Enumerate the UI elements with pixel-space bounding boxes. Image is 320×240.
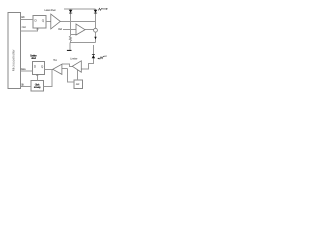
- wire AGC out to TIA control tap: [68, 69, 75, 82]
- wire monitor node to op-amp input: [71, 34, 76, 36]
- wire clock recovery input tap: [43, 69, 52, 86]
- svg-text:CLK: CLK: [22, 26, 27, 29]
- wire monitor photodiode branch: [70, 9, 72, 35]
- wire TIA gain control input: [62, 68, 68, 70]
- op-amp U2 triangle: [76, 24, 85, 35]
- decision circuit clock input caret: [36, 74, 38, 75]
- svg-text:circuit: circuit: [31, 57, 36, 60]
- monitor photodiode D2 symbol: [69, 10, 73, 13]
- svg-text:AGC: AGC: [76, 83, 80, 86]
- light output wavy arrow: [98, 8, 106, 10]
- svg-text:Enb: Enb: [21, 16, 25, 19]
- wire receive photodiode down and left to limiter: [81, 45, 93, 69]
- wire bottom rail: [70, 42, 95, 44]
- flip-flop FF1 box: [33, 16, 46, 29]
- wire op-amp out to transistor base: [85, 29, 94, 31]
- svg-text:Laser driver: Laser driver: [44, 9, 55, 12]
- svg-text:TIA: TIA: [53, 59, 57, 62]
- wire TIA out to decision circuit: [45, 68, 53, 70]
- wire Ref to op-amp input: [63, 28, 76, 30]
- light input wavy arrow: [99, 56, 107, 59]
- wire FF1 Q to laser driver: [46, 20, 51, 22]
- svg-text:CLK: CLK: [21, 83, 25, 86]
- wire transistor emitter down: [95, 32, 97, 42]
- wire top supply rail: [64, 8, 96, 10]
- microcontroller U1 box: [8, 12, 20, 88]
- laser diode D1 symbol: [94, 10, 98, 13]
- wire clock recovery to MCU CLK: [21, 86, 32, 88]
- wire ground drop: [69, 43, 71, 51]
- decision circuit box: [33, 62, 45, 75]
- wire laser driver out to laser diode node: [60, 20, 95, 22]
- wire laser diode to transistor: [95, 9, 97, 28]
- wire Data to FF1 D: [21, 18, 34, 20]
- ground symbol: [67, 50, 72, 51]
- wire decision clock from clock recovery: [36, 74, 38, 80]
- wire AGC input from limiter: [77, 70, 79, 80]
- wire limiter out to TIA in: [62, 64, 72, 66]
- receive photodiode D3 symbol: [92, 53, 95, 56]
- AGC box: [74, 80, 82, 89]
- limiter amp triangle: [72, 61, 81, 72]
- wire decision circuit to MCU Data: [21, 70, 33, 72]
- wire CLK to FF1 clock: [21, 28, 38, 31]
- transistor emitter arrow: [94, 37, 96, 40]
- TIA amp triangle: [53, 64, 62, 74]
- svg-text:recovery: recovery: [34, 86, 42, 89]
- laser driver amp A1 triangle: [51, 14, 61, 29]
- FF1 clock input caret: [37, 28, 39, 29]
- clock recovery box: [31, 81, 43, 91]
- svg-text:Limiter: Limiter: [70, 58, 77, 61]
- svg-text:Data: Data: [21, 68, 26, 71]
- transistor Q1 circle: [94, 28, 98, 32]
- svg-text:Ref.: Ref.: [58, 28, 62, 31]
- resistor R1 monitor load zigzag: [69, 35, 71, 43]
- svg-text:Microcontroller: Microcontroller: [12, 49, 16, 72]
